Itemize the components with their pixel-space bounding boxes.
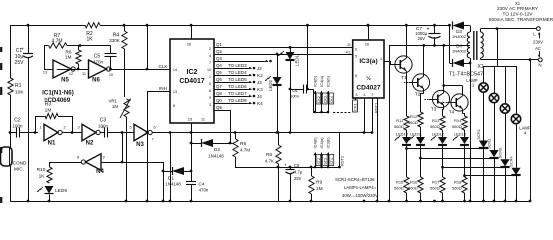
- node D1 tap: [162, 170, 165, 173]
- svg-text:16: 16: [187, 43, 191, 47]
- node N1out-R3: [71, 131, 74, 134]
- svg-text:N3: N3: [136, 142, 144, 148]
- svg-text:IC4(b): IC4(b): [313, 75, 318, 87]
- svg-text:R15: R15: [396, 180, 404, 185]
- wire T3 emitter to R13: [443, 108, 445, 110]
- resistor R18 560: [464, 176, 466, 177]
- wire LED11 to SCR2 gate: [420, 145, 422, 158]
- svg-text:470n: 470n: [93, 60, 104, 65]
- wire T4 base feed: [447, 102, 451, 104]
- resistor R10: [49, 162, 51, 167]
- resistor R8: [277, 131, 280, 134]
- node gnd: [433, 200, 436, 203]
- potentiometer VR1: [124, 99, 129, 117]
- svg-text:15: 15: [188, 118, 192, 122]
- svg-text:R18: R18: [454, 180, 462, 185]
- diode D2 1N4148: [191, 143, 201, 145]
- tag CK1: [353, 100, 358, 112]
- svg-text:TO LED6: TO LED6: [228, 84, 247, 89]
- node R15 gnd: [405, 200, 408, 203]
- svg-text:IC4(a): IC4(a): [319, 137, 324, 149]
- svg-text:4: 4: [209, 54, 211, 58]
- op-amp N2 inverter: [82, 124, 96, 141]
- wire RST1: [372, 98, 374, 133]
- svg-text:11: 11: [201, 118, 205, 122]
- wire left vertical with R1: [10, 25, 12, 78]
- svg-text:RST2: RST2: [340, 155, 345, 166]
- node gate R17: [441, 166, 444, 169]
- svg-text:8: 8: [173, 104, 175, 108]
- svg-text:T1-T4=BC547: T1-T4=BC547: [449, 72, 483, 78]
- svg-text:R14: R14: [454, 118, 462, 123]
- svg-text:8: 8: [77, 156, 79, 160]
- resistor R13 560: [440, 116, 445, 130]
- node gnd: [388, 200, 391, 203]
- svg-text:4.7K: 4.7K: [265, 159, 274, 164]
- svg-text:R16: R16: [410, 180, 418, 185]
- node d2-anode: [190, 142, 193, 145]
- wire Q6 TO LED5: [214, 82, 247, 84]
- node led1-bus: [289, 131, 292, 134]
- wire IC3 pin16 to rail: [368, 25, 370, 40]
- wire N4 input vertical: [163, 162, 165, 201]
- node x163-gnd: [162, 200, 165, 203]
- svg-text:10: 10: [207, 68, 211, 72]
- wire RST2: [339, 133, 341, 168]
- svg-text:12: 12: [69, 72, 73, 76]
- svg-text:½: ½: [366, 75, 371, 82]
- svg-text:13: 13: [173, 90, 177, 94]
- transformer X1 secondary: [470, 26, 472, 33]
- node R6-N5out: [77, 68, 80, 71]
- svg-text:ST2: ST2: [317, 158, 321, 165]
- resistor R15 560: [406, 149, 408, 178]
- capacitor C6: [290, 89, 303, 91]
- wire LED12 to SCR3 gate: [442, 145, 444, 167]
- svg-text:Q9: Q9: [216, 105, 222, 110]
- wire aux vertical x377: [377, 98, 379, 201]
- microphone COND MIC: [1, 147, 13, 166]
- svg-text:R10: R10: [37, 167, 46, 173]
- svg-text:230V AC PRIMARY: 230V AC PRIMARY: [497, 6, 539, 11]
- wire signal row: [10, 132, 17, 134]
- node led1-c6: [289, 88, 292, 91]
- node r9-gnd: [310, 200, 313, 203]
- svg-text:SCR3: SCR3: [498, 148, 503, 158]
- wire T3 base feed: [429, 99, 433, 101]
- svg-text:J3: J3: [257, 80, 262, 85]
- wire Q3: [214, 61, 264, 63]
- svg-text:560Ω: 560Ω: [452, 186, 462, 191]
- resistor R9: [310, 166, 313, 169]
- wire INH pin13: [147, 91, 170, 93]
- node R17 gnd: [441, 200, 444, 203]
- svg-text:IC3(a): IC3(a): [359, 58, 377, 65]
- op-amp IC2 CD4017 box: [170, 39, 214, 123]
- svg-text:4.7µ: 4.7µ: [294, 170, 303, 175]
- svg-text:1N4148: 1N4148: [165, 182, 181, 187]
- svg-text:X1: X1: [477, 64, 483, 70]
- svg-text:N2: N2: [86, 141, 94, 147]
- capacitor C7 1000u: [434, 25, 436, 33]
- wire R7 left to N5 input: [44, 46, 46, 70]
- svg-text:25V: 25V: [294, 176, 302, 181]
- svg-text:560Ω: 560Ω: [394, 124, 404, 129]
- transistor T3: [432, 90, 449, 107]
- svg-text:R9: R9: [316, 180, 322, 186]
- svg-text:560Ω: 560Ω: [408, 186, 418, 191]
- wire pin4 down: [364, 98, 366, 133]
- wire T1 collector: [406, 25, 408, 56]
- wire T2 emitter to R12: [423, 91, 425, 93]
- svg-text:SCR2: SCR2: [487, 139, 492, 149]
- svg-text:IC4(a): IC4(a): [319, 75, 324, 87]
- arrow to J4: [247, 96, 252, 98]
- wire T1 emitter to R11: [406, 73, 408, 116]
- svg-text:R12: R12: [410, 114, 418, 119]
- lamp LAMP3: [505, 66, 507, 104]
- svg-text:+: +: [284, 163, 287, 168]
- resistor R2: [85, 23, 100, 28]
- svg-text:LED9: LED9: [55, 188, 67, 194]
- svg-text:1N4002: 1N4002: [452, 49, 467, 54]
- op-amp N1 inverter: [44, 124, 58, 141]
- resistor R7: [44, 45, 49, 47]
- node SCR1 gnd: [482, 200, 485, 203]
- svg-text:IC3(b): IC3(b): [326, 137, 331, 149]
- wire mic to ground: [10, 166, 12, 201]
- svg-text:LED2: LED2: [268, 79, 273, 91]
- wire Q7 TO LED6: [214, 89, 247, 91]
- svg-text:R8: R8: [266, 152, 272, 158]
- lamp LAMP4: [516, 66, 518, 114]
- SCR4: [516, 124, 518, 168]
- wire envelope node: [235, 167, 340, 169]
- resistor R4: [124, 25, 126, 31]
- wire Q1 to J1: [214, 47, 353, 49]
- svg-text:1: 1: [209, 75, 211, 79]
- wire N4 input feed: [122, 133, 124, 163]
- svg-text:R13: R13: [432, 118, 440, 123]
- wire Q5 TO LED4: [214, 75, 247, 77]
- wire T1 base feed: [384, 61, 390, 63]
- svg-text:Q0: Q0: [216, 98, 222, 103]
- svg-text:5: 5: [129, 126, 131, 130]
- svg-text:MIC.: MIC.: [14, 167, 24, 172]
- svg-text:560Ω: 560Ω: [430, 124, 440, 129]
- wire N1 out to N2: [62, 132, 82, 134]
- svg-text:40W....100W/230V: 40W....100W/230V: [342, 193, 378, 198]
- node gate R16: [419, 157, 422, 160]
- svg-text:560Ω: 560Ω: [452, 124, 462, 129]
- arrow to K4: [247, 103, 252, 105]
- svg-text:N: N: [538, 63, 541, 68]
- arrow Q3 end: [264, 61, 268, 63]
- node c8-gnd: [289, 200, 292, 203]
- svg-text:SCR1: SCR1: [476, 129, 481, 139]
- wire 0V line: [389, 45, 470, 47]
- svg-text:Q8: Q8: [216, 91, 222, 96]
- svg-text:N1: N1: [48, 141, 56, 147]
- op-amp N5 inverter: [53, 60, 71, 78]
- svg-text:T2: T2: [415, 92, 421, 98]
- svg-text:4.7M: 4.7M: [51, 39, 62, 45]
- wire LED13 to SCR4 gate: [464, 145, 466, 176]
- wire LED10 to SCR1 gate: [406, 145, 408, 149]
- node SCR3 gnd: [504, 200, 507, 203]
- svg-text:10K: 10K: [15, 90, 24, 96]
- svg-text:K1: K1: [346, 50, 352, 55]
- svg-text:VR1: VR1: [108, 99, 117, 104]
- svg-text:2: 2: [209, 47, 211, 51]
- wire N4 in wire: [101, 162, 163, 164]
- node N return: [529, 58, 532, 61]
- svg-text:4: 4: [364, 93, 366, 97]
- svg-text:1M: 1M: [45, 108, 52, 114]
- wire rail to C6: [306, 24, 309, 27]
- svg-text:5: 5: [209, 82, 211, 86]
- svg-text:IC3(b): IC3(b): [326, 75, 331, 87]
- svg-text:7: 7: [151, 138, 153, 142]
- svg-text:1M: 1M: [65, 55, 72, 61]
- node x147-clk: [146, 68, 149, 71]
- svg-text:T3: T3: [431, 107, 437, 113]
- wire dashed to CK1: [333, 112, 351, 114]
- svg-text:330K: 330K: [109, 38, 121, 43]
- wire left page-border dashes: [0, 47, 2, 52]
- transistor T4: [451, 94, 468, 111]
- clock tap IC3(b) upper: [327, 111, 330, 114]
- svg-text:IC2: IC2: [187, 69, 198, 76]
- svg-text:IC4(b): IC4(b): [313, 137, 318, 149]
- capacitor C4: [191, 171, 193, 181]
- svg-text:1: 1: [380, 57, 382, 61]
- wire N6 out to IC2 CLK: [110, 69, 170, 71]
- node rail-C1: [27, 24, 30, 27]
- clock tap IC4(b) upper: [314, 111, 317, 114]
- svg-text:ST3: ST3: [324, 158, 328, 165]
- svg-text:N5: N5: [61, 78, 69, 84]
- wire pin15 envelope vertical: [191, 123, 193, 171]
- node SCR2 gnd: [493, 200, 496, 203]
- svg-text:T4: T4: [449, 110, 455, 116]
- node gnd: [146, 200, 149, 203]
- svg-text:CK4: CK4: [330, 96, 334, 103]
- transistor T1: [395, 56, 412, 73]
- capacitor C1: [28, 25, 30, 53]
- resistor R17 560: [442, 167, 444, 177]
- SCR1: [483, 92, 485, 140]
- svg-text:560Ω: 560Ω: [408, 120, 418, 125]
- svg-text:1M: 1M: [112, 104, 118, 109]
- svg-text:100n: 100n: [98, 124, 109, 129]
- node rst1-bus: [371, 131, 374, 134]
- svg-text:CK2: CK2: [317, 96, 321, 103]
- node t4-t3 collector: [442, 84, 445, 87]
- svg-text:14: 14: [173, 68, 177, 72]
- node inh-bus: [146, 131, 149, 134]
- resistor R6b 4.7M: [234, 131, 237, 134]
- node led2-bus: [276, 131, 279, 134]
- svg-text:R17: R17: [432, 180, 440, 185]
- svg-text:K3: K3: [257, 87, 263, 92]
- wire bus N3 out to RST1: [152, 132, 372, 134]
- svg-text:CD4027: CD4027: [356, 85, 381, 92]
- svg-text:11: 11: [82, 72, 86, 76]
- op-amp IC3(a) CD4027 box: [353, 40, 384, 98]
- node rail-R4: [123, 24, 126, 27]
- transistor T2: [412, 74, 429, 91]
- node R18 gnd: [463, 200, 466, 203]
- svg-text:25V: 25V: [15, 60, 25, 66]
- svg-text:COND: COND: [13, 161, 27, 166]
- resistor R11 560: [404, 116, 409, 130]
- wire 0V drop x389: [389, 45, 391, 201]
- svg-text:7: 7: [209, 61, 211, 65]
- node Q2-LED2: [276, 53, 279, 56]
- node N4 feed: [121, 131, 124, 134]
- svg-text:1K: 1K: [86, 37, 93, 43]
- svg-text:D2: D2: [214, 147, 220, 153]
- node R16 gnd: [419, 200, 422, 203]
- clock tap IC4(a) upper: [320, 111, 323, 114]
- svg-text:AC: AC: [535, 46, 541, 51]
- wire T2 collector: [423, 45, 425, 74]
- svg-text:CK1: CK1: [353, 102, 358, 111]
- wire Q8 TO LED7: [214, 96, 247, 98]
- transformer X1 core: [473, 31, 475, 60]
- node SCR4 gnd: [515, 200, 518, 203]
- wire ground bottom rail: [10, 201, 530, 203]
- node rail-C7: [433, 24, 436, 27]
- svg-text:1N4148: 1N4148: [208, 154, 224, 159]
- svg-text:5: 5: [355, 55, 357, 59]
- wire Q2 to K1: [214, 54, 353, 56]
- svg-text:1M: 1M: [316, 186, 323, 192]
- svg-text:CLK: CLK: [159, 64, 169, 69]
- arrow to J3: [247, 82, 252, 84]
- SCR2: [494, 103, 496, 150]
- LED1: [290, 47, 292, 52]
- svg-text:N6: N6: [92, 78, 100, 84]
- svg-text:J4: J4: [257, 94, 262, 99]
- svg-text:INH: INH: [159, 86, 167, 91]
- wire T4 collector: [462, 86, 464, 95]
- node c7-0v: [433, 44, 436, 47]
- clock tap IC3(b) lower: [327, 166, 330, 169]
- svg-text:N4: N4: [96, 169, 104, 175]
- wire C6 to clock distribution: [313, 89, 315, 112]
- svg-text:9: 9: [102, 156, 104, 160]
- node gnd: [529, 200, 532, 203]
- wire Q4 TO LED3: [214, 68, 247, 70]
- op-amp N4 inverter points left: [86, 154, 102, 171]
- svg-text:TO LED3: TO LED3: [228, 63, 247, 68]
- wire T3 collector: [443, 45, 445, 90]
- svg-text:Q1: Q1: [216, 42, 222, 47]
- node gnd: [169, 200, 172, 203]
- svg-text:6: 6: [153, 126, 155, 130]
- arrow to J2: [247, 68, 252, 70]
- wire secondary to ground: [470, 63, 472, 201]
- svg-text:J2: J2: [257, 66, 262, 71]
- diode D4 1N4002: [449, 25, 451, 63]
- terminal L: [536, 27, 540, 31]
- diode D3 1N4002: [452, 22, 454, 30]
- wire rail to CLK crossing: [147, 25, 149, 69]
- svg-text:9: 9: [209, 96, 211, 100]
- svg-text:TO LED4: TO LED4: [228, 70, 247, 75]
- svg-text:26V: 26V: [418, 36, 426, 41]
- svg-text:R11: R11: [396, 118, 404, 123]
- resistor R6: [78, 46, 80, 51]
- node led9-gnd: [48, 200, 51, 203]
- svg-text:Q7: Q7: [216, 84, 222, 89]
- wire N5 out to N6 in: [57, 69, 89, 71]
- svg-text:1: 1: [39, 126, 41, 130]
- clock tap IC4(a) lower: [320, 166, 323, 169]
- svg-text:SCR1-SCR4=BT136: SCR1-SCR4=BT136: [335, 177, 375, 182]
- svg-text:C8: C8: [294, 163, 300, 168]
- wire IC2 pin16 to rail: [191, 25, 193, 39]
- svg-text:TO LED7: TO LED7: [228, 91, 247, 96]
- wire primary top to L: [481, 28, 537, 30]
- svg-text:1N4002: 1N4002: [452, 34, 467, 39]
- SCR3: [505, 113, 507, 159]
- svg-text:LED1: LED1: [295, 54, 300, 66]
- clock tap IC4(b) lower: [314, 166, 317, 169]
- node gnd: [27, 200, 30, 203]
- terminal N: [538, 58, 542, 62]
- svg-text:3: 3: [77, 126, 79, 130]
- capacitor C8 4.7u: [289, 166, 292, 169]
- wire N return down: [530, 60, 532, 201]
- resistor R16 560: [420, 158, 422, 177]
- svg-text:Q6: Q6: [216, 77, 222, 82]
- svg-text:R6: R6: [240, 141, 246, 147]
- capacitor C2: [16, 128, 18, 138]
- lamp LAMP1: [483, 66, 485, 83]
- node rail-D4: [448, 24, 451, 27]
- op-amp N3 inverter: [134, 124, 148, 141]
- svg-text:Q3: Q3: [216, 56, 222, 61]
- svg-text:TO LED5: TO LED5: [228, 77, 247, 82]
- wire N2 out to C3: [100, 132, 104, 134]
- svg-text:TO LED8: TO LED8: [228, 98, 247, 103]
- resistor R3 feedback: [35, 116, 37, 133]
- node rail-x147: [146, 24, 149, 27]
- op-amp N6 inverter: [89, 60, 107, 78]
- node c6-vcc: [306, 88, 309, 91]
- node bus-x170: [169, 131, 172, 134]
- wire x170 to ground: [170, 133, 172, 202]
- node gnd: [125, 200, 128, 203]
- svg-text:CD4017: CD4017: [179, 78, 204, 85]
- wire T2 base feed: [409, 82, 413, 84]
- capacitor C3: [104, 128, 106, 138]
- node C4-gnd: [190, 200, 193, 203]
- LED9: [45, 186, 54, 194]
- lamp LAMP2: [494, 66, 496, 93]
- svg-text:16: 16: [365, 43, 369, 47]
- svg-text:10: 10: [109, 73, 113, 77]
- svg-text:100n: 100n: [12, 124, 23, 129]
- svg-text:TO 12V-0-12V: TO 12V-0-12V: [503, 12, 534, 17]
- arrow to K3: [247, 89, 252, 91]
- node R7-R6: [79, 44, 82, 47]
- svg-text:560Ω: 560Ω: [394, 186, 404, 191]
- resistor R1: [8, 78, 13, 95]
